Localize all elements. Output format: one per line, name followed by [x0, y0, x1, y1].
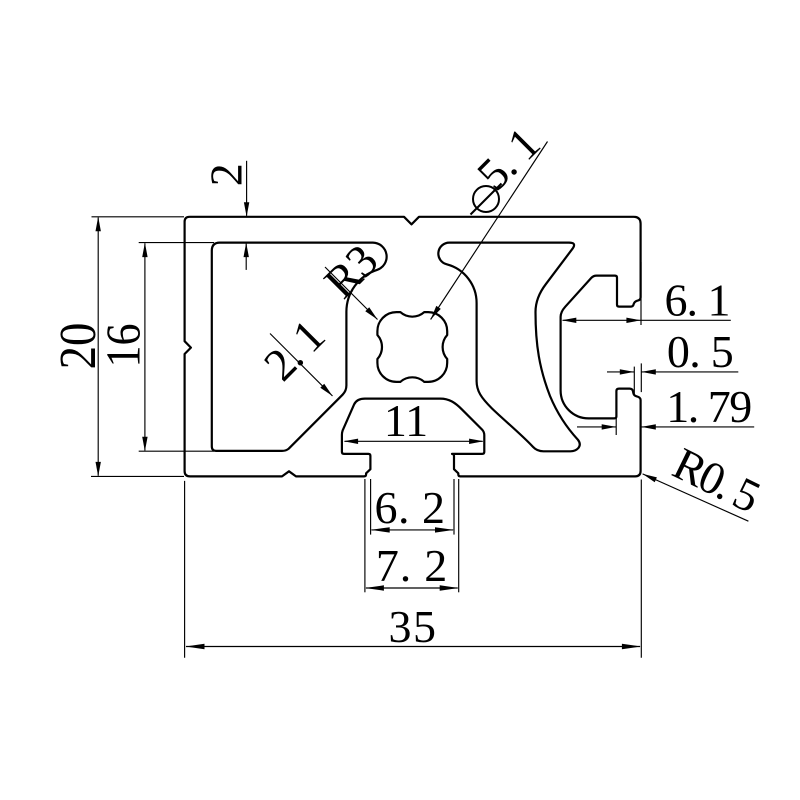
dim 6.2: [370, 479, 372, 535]
dim 6.1 right slot depth: [640, 262, 642, 325]
dim 16 left: [139, 242, 214, 244]
svg-text:7. 2: 7. 2: [376, 540, 448, 591]
svg-text:6. 2: 6. 2: [375, 482, 446, 533]
svg-text:6. 1: 6. 1: [665, 275, 730, 326]
dim 7.2: [364, 479, 366, 592]
svg-text:2: 2: [201, 163, 252, 186]
svg-text:0. 5: 0. 5: [667, 326, 733, 377]
leader dia 5.1: [431, 142, 548, 320]
dim 11: [345, 440, 483, 442]
svg-text:11: 11: [384, 395, 428, 446]
dim 1.79 lower lip: [615, 413, 617, 435]
svg-text:16: 16: [96, 323, 151, 367]
svg-text:35: 35: [389, 601, 438, 652]
leader R0.5: [643, 474, 749, 521]
dim 35 bottom: [184, 481, 186, 658]
profile outer outline with right slot mouth and bottom T-slot neck: [185, 217, 641, 477]
leader 2.1: [270, 334, 333, 397]
upper-right hook cavity: [438, 243, 579, 452]
center screw hole (5.1): [377, 312, 447, 382]
left inner cavity: [212, 243, 387, 451]
svg-text:1. 79: 1. 79: [666, 381, 751, 432]
dim 0.5 lip step: [633, 367, 635, 395]
leader R3: [325, 267, 378, 320]
dim 2 top wall: [246, 161, 248, 216]
dim 20 left: [92, 216, 185, 218]
